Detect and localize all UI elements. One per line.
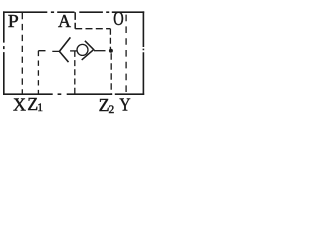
valve line stub to ball [70,50,77,52]
svg-text:1: 1 [37,102,43,114]
svg-text:X: X [13,94,26,114]
pilot path down to junction (dashed vertical) [109,29,111,50]
valve outlet line to junction [94,50,106,52]
pilot line P to X (dashed vertical) [21,13,23,94]
enclosure left border (chain line) [3,11,5,94]
flow arrowhead on valve line [59,37,70,62]
svg-text:Y: Y [119,95,130,115]
pilot path A horizontal (dashed) [75,28,110,30]
svg-text:P: P [8,12,19,32]
pilot line Z1 vertical (dashed) [37,51,39,94]
svg-text:A: A [58,11,71,31]
check valve seat [82,41,94,60]
enclosure top border (chain line) [3,11,144,13]
junction node dot [109,49,113,53]
svg-text:2: 2 [109,104,115,116]
check valve ball [77,44,88,55]
enclosure bottom border (chain line) [3,93,144,95]
pilot line junction to Z2 (dashed vertical) [110,53,112,94]
port line A (dashed vertical stub) [74,12,76,29]
pilot line Z1 horizontal to valve [38,50,59,53]
svg-text:O: O [113,8,123,30]
pilot line below valve (dashed vertical) [74,51,76,94]
enclosure right border (chain line) [142,11,144,94]
pilot line O to Y (dashed vertical) [125,15,127,94]
